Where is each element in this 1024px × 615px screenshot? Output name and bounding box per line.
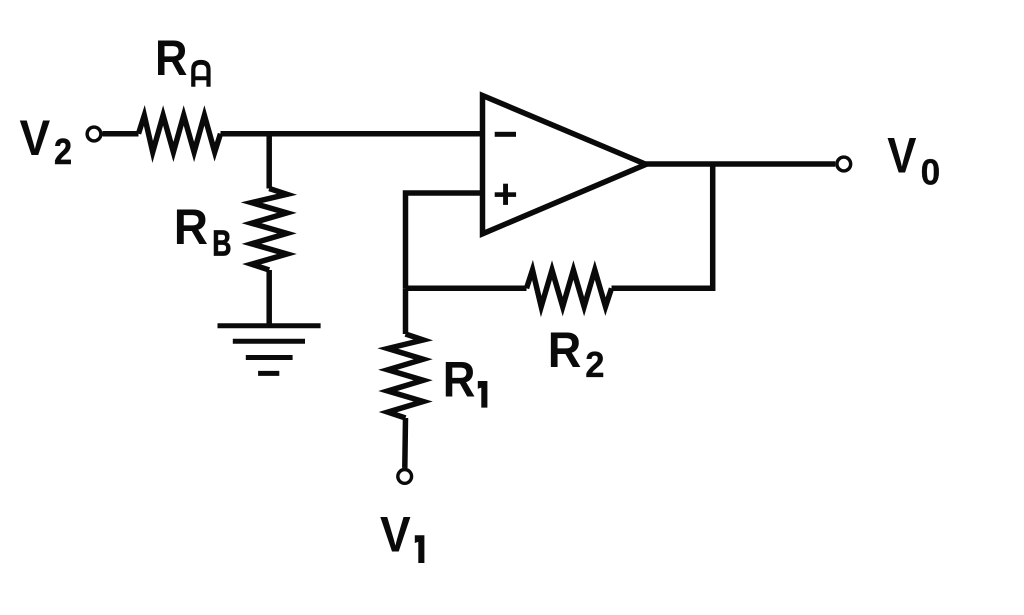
wire RA to op-amp inverting input <box>221 131 483 137</box>
svg-text:R: R <box>443 352 476 408</box>
label V1 <box>380 508 424 563</box>
label RB <box>174 200 232 264</box>
label R2 <box>548 322 605 385</box>
svg-text:2: 2 <box>585 346 604 386</box>
wire R2 to feedback corner <box>612 286 713 292</box>
svg-text:R: R <box>174 200 208 255</box>
wire feedback vertical <box>710 164 716 291</box>
wire op-amp noninverting input <box>406 193 483 288</box>
terminal V2 input <box>87 127 101 141</box>
label V0 <box>887 127 940 193</box>
svg-text:0: 0 <box>921 152 941 192</box>
wire RB to ground <box>266 270 272 326</box>
wire node B down to R1 <box>403 288 409 334</box>
svg-text:B: B <box>212 223 231 264</box>
svg-text:R: R <box>155 31 187 87</box>
svg-text:2: 2 <box>54 133 72 173</box>
wire node B to R2 <box>406 286 527 292</box>
terminal V1 input <box>398 470 412 484</box>
svg-text:R: R <box>548 322 582 378</box>
label RA <box>155 31 211 87</box>
resistor R1 <box>388 334 423 418</box>
op-amp U1 <box>483 96 647 234</box>
terminal V0 output <box>837 157 851 171</box>
wire V2 to RA <box>103 131 139 137</box>
wire node A down to RB <box>266 134 272 189</box>
svg-text:V: V <box>20 111 51 166</box>
svg-text:V: V <box>380 508 411 563</box>
op-amp minus pin <box>495 132 516 137</box>
label V2 <box>20 111 73 172</box>
wire op-amp output <box>645 161 836 167</box>
resistor RA <box>139 115 221 152</box>
wire R1 to V1 terminal <box>402 418 408 468</box>
resistor RB <box>252 189 287 271</box>
svg-text:V: V <box>887 127 916 183</box>
ground <box>218 326 321 374</box>
resistor R2 <box>527 270 612 307</box>
label R1 <box>443 352 488 408</box>
op-amp plus pin <box>495 184 516 205</box>
